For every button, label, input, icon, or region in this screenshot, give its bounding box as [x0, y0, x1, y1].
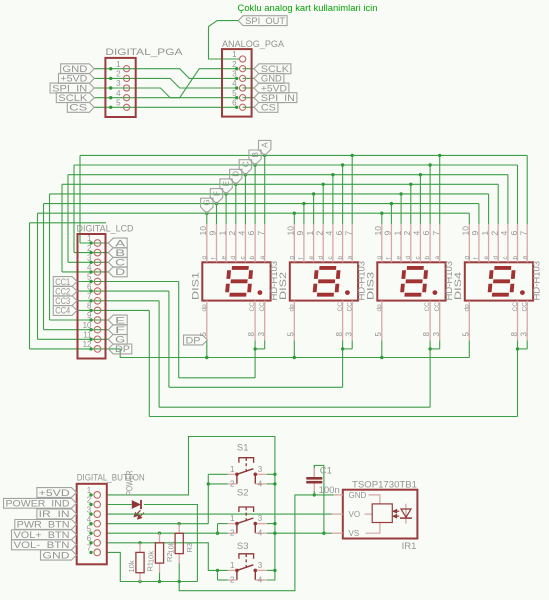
junction PWR_BTN at R3 top — [178, 522, 181, 525]
wire net +5VD (DIGITAL_PGA pin2 to ANALOG_PGA pin4) — [94, 78, 237, 88]
svg-text:+5VD: +5VD — [39, 488, 70, 498]
wire S1 left node — [208, 474, 228, 523]
svg-text:1: 1 — [480, 231, 490, 236]
svg-text:dp: dp — [201, 304, 208, 312]
svg-text:g: g — [464, 256, 471, 260]
svg-text:B: B — [115, 248, 125, 258]
svg-text:CS: CS — [69, 103, 87, 113]
svg-text:2: 2 — [230, 576, 235, 585]
svg-text:8: 8 — [247, 332, 256, 337]
svg-text:VOL-_BTN: VOL-_BTN — [14, 540, 70, 550]
net flag SCLK (DIGITAL_PGA pin4) — [56, 93, 94, 103]
svg-text:DIGITAL_BUTTON: DIGITAL_BUTTON — [77, 473, 145, 484]
net flag POWER_IND (DIGITAL_BUTTON pin2) — [4, 498, 77, 508]
svg-text:2: 2 — [402, 231, 412, 236]
net pennant label E — [220, 179, 232, 194]
junction VOL+ at R2 top — [158, 532, 161, 535]
svg-text:1: 1 — [392, 231, 402, 236]
junction net C at DIS1 (label attach) — [244, 173, 247, 176]
net pennant label C — [239, 160, 251, 175]
wire net POWER_IND (DIGITAL_BUTTON pin2 to LED anode) — [107, 504, 132, 506]
wire GND run to IR1 ground — [179, 495, 333, 591]
junction +5VD at S1 pin3 — [273, 473, 276, 476]
net flag F (DIGITAL_LCD pin10) — [108, 325, 127, 335]
junction +5VD at S2 pin3 — [273, 522, 276, 525]
svg-text:2: 2 — [232, 60, 237, 69]
svg-text:6: 6 — [232, 99, 237, 108]
IR receiver IR1 TSOP1730TB1 — [332, 480, 418, 553]
net pennant label G — [201, 198, 213, 213]
svg-text:DIS1: DIS1 — [190, 272, 200, 300]
net flag CC1 (DIGITAL_LCD pin5) — [53, 277, 77, 287]
junction net DP at DIS3 dp pin — [380, 356, 383, 359]
net flag DP (DIGITAL_LCD pin12) — [108, 344, 132, 354]
svg-text:5: 5 — [287, 332, 296, 337]
net flag CS (ANALOG_PGA pin6) — [254, 102, 278, 112]
net flag CS (DIGITAL_PGA pin5) — [67, 102, 94, 112]
net flag IR_IN (DIGITAL_BUTTON pin3) — [37, 509, 77, 519]
junction net E at DIS3 — [399, 192, 402, 195]
7-segment display DIS2 (HD-H103) — [278, 224, 368, 340]
svg-text:CC: CC — [434, 302, 441, 312]
svg-text:a: a — [521, 256, 528, 260]
junction SPI_IN at ANALOG_PGA pin5 — [235, 96, 238, 99]
svg-text:GND: GND — [62, 64, 87, 74]
svg-text:3: 3 — [432, 332, 441, 337]
wire net C (segment bus line 3) — [68, 175, 508, 263]
svg-text:E: E — [222, 181, 231, 186]
svg-text:e: e — [483, 256, 490, 260]
svg-text:a: a — [434, 256, 441, 260]
push button S2 — [228, 488, 267, 538]
svg-text:G: G — [203, 199, 212, 205]
junction GND at DIGITAL_PGA pin1 — [109, 67, 112, 70]
svg-text:4: 4 — [412, 231, 422, 236]
svg-text:1: 1 — [230, 465, 235, 474]
svg-text:g: g — [201, 256, 208, 260]
net flag C (DIGITAL_LCD pin3) — [108, 257, 127, 267]
svg-text:DIS3: DIS3 — [365, 272, 375, 300]
svg-text:3: 3 — [258, 561, 263, 570]
junction GND at C1 bottom — [313, 493, 316, 496]
resistor R3 10k — [166, 524, 194, 582]
svg-text:9: 9 — [383, 231, 393, 236]
wire +5VD branch to S2 pin3 — [267, 523, 275, 525]
wire net +5VD (DIGITAL_BUTTON pin1 to switch common rail) — [107, 437, 275, 581]
svg-text:1: 1 — [116, 60, 121, 69]
svg-text:6: 6 — [334, 231, 344, 236]
svg-text:CS: CS — [261, 103, 276, 113]
junction VOL+ at S2 left node — [216, 532, 219, 535]
wire SPI_OUT (ANALOG_PGA pin1 to label) — [209, 21, 240, 59]
junction PWR_BTN at S1 pin2 — [207, 482, 210, 485]
svg-text:g: g — [289, 256, 296, 260]
svg-text:1: 1 — [305, 231, 315, 236]
junction GND at R1 — [138, 580, 141, 583]
net flag E (DIGITAL_LCD pin9) — [108, 315, 127, 325]
svg-text:GND: GND — [261, 74, 282, 84]
svg-text:f: f — [298, 258, 305, 260]
svg-text:2: 2 — [227, 231, 237, 236]
wire net G (segment bus line 7) — [38, 213, 470, 339]
svg-text:f: f — [473, 258, 480, 260]
svg-text:d: d — [492, 256, 499, 260]
net flag GND (DIGITAL_PGA pin1) — [61, 64, 95, 74]
svg-text:3: 3 — [258, 514, 263, 523]
7-segment display DIS3 (HD-H103) — [365, 224, 455, 340]
svg-text:D: D — [115, 267, 125, 277]
svg-text:9: 9 — [470, 231, 480, 236]
svg-text:SPI_IN: SPI_IN — [261, 93, 295, 103]
net pennant label D — [230, 169, 242, 184]
resistor R2 10k — [147, 533, 175, 581]
svg-text:DIGITAL_LCD: DIGITAL_LCD — [77, 224, 134, 235]
svg-text:G: G — [115, 335, 125, 345]
svg-text:1: 1 — [230, 561, 235, 570]
svg-text:DIS2: DIS2 — [278, 272, 288, 300]
wire net VOL+_BTN (DIGITAL_BUTTON pin5 to S2 pin2) — [107, 532, 228, 534]
svg-text:DP: DP — [115, 344, 130, 354]
svg-text:E: E — [115, 315, 125, 325]
svg-text:DIS4: DIS4 — [453, 272, 463, 300]
svg-text:b: b — [249, 255, 256, 259]
junction +5VD at S1 pin4 — [273, 482, 276, 485]
svg-text:CC: CC — [249, 302, 256, 312]
wire LED cathode to GND drop — [144, 505, 198, 582]
svg-text:VOL+_BTN: VOL+_BTN — [14, 530, 70, 540]
wires DIGITAL_LCD pins 9-11 to E-G labels — [38, 320, 109, 339]
wire net CC2 (DIGITAL_LCD pin6 to DIS2 common cathodes) — [77, 291, 352, 387]
svg-text:VS: VS — [349, 529, 360, 538]
net flag +5VD (ANALOG_PGA pin4) — [254, 83, 289, 93]
junction net D at DIS2 — [322, 183, 325, 186]
svg-text:2: 2 — [314, 231, 324, 236]
7-segment display DIS1 (HD-H103) — [190, 224, 280, 340]
svg-text:f: f — [211, 258, 218, 260]
net flag PWR_BTN (DIGITAL_BUTTON pin4) — [15, 520, 77, 530]
svg-text:CC: CC — [337, 302, 344, 312]
net flag VOL-_BTN (DIGITAL_BUTTON pin6) — [12, 540, 77, 550]
net flag CC2 (DIGITAL_LCD pin6) — [53, 286, 77, 296]
connector DIGITAL_LCD — [77, 224, 134, 359]
wire S2 left node to pin1 — [218, 524, 228, 534]
svg-text:4: 4 — [324, 231, 334, 236]
junction net F at DIS3 — [390, 202, 393, 205]
svg-text:e: e — [308, 256, 315, 260]
wire net CC1 (DIGITAL_LCD pin5 to DIS1 common cathodes) — [77, 282, 265, 378]
wire S3 left node to pin2 — [218, 570, 228, 580]
svg-text:4: 4 — [237, 231, 247, 236]
junction net F at DIS1 (label attach) — [215, 202, 218, 205]
svg-text:VO: VO — [349, 510, 361, 519]
junctions at DIGITAL_BUTTON pins — [89, 493, 92, 554]
svg-text:CC: CC — [346, 302, 353, 312]
svg-text:9: 9 — [208, 231, 218, 236]
net flag DP (at DIS1 dp pin) — [184, 335, 208, 345]
svg-text:POWER_IND: POWER_IND — [6, 499, 70, 509]
svg-text:10: 10 — [198, 226, 208, 236]
svg-text:2: 2 — [489, 231, 499, 236]
junctions at DIGITAL_LCD pins — [89, 241, 92, 350]
junction net E at DIS2 — [312, 192, 315, 195]
svg-text:e: e — [395, 256, 402, 260]
capacitor C1 100n — [306, 465, 339, 495]
svg-text:3: 3 — [258, 465, 263, 474]
junction net D at DIS3 — [409, 183, 412, 186]
wire net CC4 (DIGITAL_LCD pin8 to DIS4 common cathodes) — [77, 310, 527, 416]
wire net CC3 (DIGITAL_LCD pin7 to DIS3 common cathodes) — [77, 301, 440, 407]
svg-text:7: 7 — [518, 231, 528, 236]
svg-text:4: 4 — [258, 529, 263, 538]
net pennant label F — [210, 189, 222, 204]
svg-text:R3: R3 — [185, 543, 194, 553]
wire net PWR_BTN (DIGITAL_BUTTON pin4 to S1) — [107, 523, 209, 525]
net flag GND (ANALOG_PGA pin3) — [254, 73, 284, 83]
svg-text:10: 10 — [286, 226, 296, 236]
wire C1 top jog to VS column — [314, 465, 324, 533]
svg-text:2: 2 — [116, 70, 121, 79]
net flag SCLK (ANALOG_PGA pin2) — [254, 64, 291, 74]
7-segment display DIS4 (HD-H103) — [453, 224, 543, 340]
svg-text:PWR_BTN: PWR_BTN — [17, 520, 70, 530]
svg-text:d: d — [230, 256, 237, 260]
connector DIGITAL_PGA — [105, 47, 183, 117]
svg-text:7: 7 — [431, 231, 441, 236]
svg-text:CC1: CC1 — [55, 277, 70, 287]
svg-text:SPI_OUT: SPI_OUT — [245, 16, 285, 26]
svg-text:1: 1 — [232, 50, 237, 59]
svg-text:3: 3 — [257, 332, 266, 337]
junction GND at R3 — [178, 580, 181, 583]
net flag CC3 (DIGITAL_LCD pin7) — [53, 296, 77, 306]
svg-text:5: 5 — [116, 99, 121, 108]
svg-text:b: b — [512, 256, 519, 260]
svg-text:2: 2 — [230, 529, 235, 538]
junction CS at DIGITAL_PGA pin5 — [109, 106, 112, 109]
net flag A (DIGITAL_LCD pin1) — [108, 238, 127, 248]
wire net D (segment bus line 4) — [62, 184, 498, 272]
net flag G (DIGITAL_LCD pin11) — [108, 334, 127, 344]
svg-text:S2: S2 — [237, 488, 249, 499]
svg-text:10: 10 — [373, 226, 383, 236]
svg-text:A: A — [115, 238, 126, 248]
junction SPI_IN at DIGITAL_PGA pin3 — [109, 86, 112, 89]
junction net CC2 at DIS2 cathode join — [341, 347, 344, 350]
junction GND at ANALOG_PGA pin3 — [235, 77, 238, 80]
wire net SPI_IN (DIGITAL_PGA pin3 to ANALOG_PGA pin5) — [94, 88, 237, 98]
svg-text:SCLK: SCLK — [261, 64, 290, 74]
svg-text:A: A — [261, 142, 270, 148]
svg-text:10k: 10k — [127, 560, 136, 572]
junction net F at DIS2 — [302, 202, 305, 205]
svg-text:3: 3 — [344, 332, 353, 337]
wire net DP (staircase to DIGITAL_LCD pin12) — [30, 223, 107, 349]
svg-text:4: 4 — [258, 479, 263, 488]
wire +5VD (S2 pin4 to IR1 VS) — [267, 532, 332, 534]
svg-text:5: 5 — [232, 89, 237, 98]
junction +5VD at S2 pin4 — [273, 532, 276, 535]
svg-text:dp: dp — [376, 304, 383, 312]
svg-text:1: 1 — [217, 231, 227, 236]
svg-text:8: 8 — [510, 332, 519, 337]
svg-text:IR1: IR1 — [402, 541, 417, 552]
svg-text:4: 4 — [116, 89, 121, 98]
svg-text:3: 3 — [519, 332, 528, 337]
svg-text:6: 6 — [421, 231, 431, 236]
svg-text:5: 5 — [462, 332, 471, 337]
svg-text:d: d — [317, 256, 324, 260]
junction SCLK at ANALOG_PGA pin2 — [235, 67, 238, 70]
svg-text:3: 3 — [232, 70, 237, 79]
svg-text:7: 7 — [343, 231, 353, 236]
junction net DP at DIS1 dp pin — [205, 356, 208, 359]
wire net SCLK (DIGITAL_PGA pin4 to ANALOG_PGA pin2) — [94, 69, 237, 98]
junction net A at DIS2 — [351, 154, 354, 157]
svg-text:f: f — [386, 258, 393, 260]
svg-text:CC: CC — [259, 302, 266, 312]
svg-text:5: 5 — [374, 332, 383, 337]
svg-text:3: 3 — [116, 79, 121, 88]
svg-text:4: 4 — [258, 576, 263, 585]
svg-text:S3: S3 — [237, 541, 249, 552]
junction +5VD at C1/VS column — [322, 532, 325, 535]
svg-text:b: b — [337, 256, 344, 260]
svg-text:B: B — [251, 152, 260, 157]
svg-text:F: F — [212, 191, 221, 196]
svg-text:10: 10 — [461, 226, 471, 236]
junction net D at DIS1 (label attach) — [234, 183, 237, 186]
svg-text:5: 5 — [199, 332, 208, 337]
net pennant label B — [249, 150, 261, 165]
junction net A at DIS1 (label attach) — [263, 154, 266, 157]
svg-text:CC: CC — [521, 302, 528, 312]
wire net GND (DIGITAL_PGA pin1 to ANALOG_PGA pin3) — [94, 69, 237, 79]
junction net CC3 at DIS3 cathode join — [428, 347, 431, 350]
svg-text:6: 6 — [509, 231, 519, 236]
net flag +5VD (DIGITAL_PGA pin2) — [59, 73, 95, 83]
junction net CC1 at DIS1 cathode join — [253, 347, 256, 350]
svg-text:1: 1 — [230, 514, 235, 523]
svg-text:CC: CC — [512, 302, 519, 312]
wire +5VD branch to S3 pin3 — [267, 569, 275, 571]
svg-text:8: 8 — [335, 332, 344, 337]
svg-text:GND: GND — [43, 550, 70, 560]
svg-text:d: d — [405, 256, 412, 260]
resistor R1 10k — [127, 543, 155, 583]
wire +5VD branch to S1 pin4 — [267, 483, 275, 485]
svg-text:HD-H103: HD-H103 — [531, 261, 542, 301]
net flag CC4 (DIGITAL_LCD pin8) — [53, 306, 77, 316]
svg-text:2: 2 — [230, 479, 235, 488]
wire net GND (DIGITAL_BUTTON pin7 to resistor rail) — [107, 552, 198, 581]
junction net B at DIS3 — [428, 163, 431, 166]
junction net G at DIS3 — [380, 212, 383, 215]
svg-text:F: F — [115, 325, 126, 335]
svg-text:+5VD: +5VD — [60, 74, 87, 84]
push button S1 — [228, 442, 267, 488]
junction net E at DIS1 (label attach) — [224, 192, 227, 195]
junction net DP at DIS2 dp pin — [293, 356, 296, 359]
svg-text:9: 9 — [295, 231, 305, 236]
net label SPI_OUT flag — [238, 16, 287, 26]
svg-text:dp: dp — [289, 304, 296, 312]
svg-text:S1: S1 — [237, 442, 249, 453]
junction net G at DIS1 (label attach) — [205, 212, 208, 215]
svg-text:C: C — [115, 258, 125, 268]
net flag +5VD (DIGITAL_BUTTON pin1) — [37, 488, 77, 498]
junction SCLK at DIGITAL_PGA pin4 — [109, 96, 112, 99]
wire +5VD branch to S1 pin3 — [267, 473, 275, 475]
svg-text:g: g — [376, 256, 383, 260]
svg-text:SCLK: SCLK — [58, 93, 88, 103]
svg-text:100n: 100n — [319, 485, 340, 496]
junction CS at ANALOG_PGA pin6 — [235, 106, 238, 109]
svg-text:C1: C1 — [320, 466, 332, 477]
svg-text:CC3: CC3 — [55, 296, 70, 306]
svg-text:10k: 10k — [147, 551, 156, 563]
svg-text:e: e — [220, 256, 227, 260]
connector DIGITAL_BUTTON — [77, 473, 145, 565]
net flag SPI_IN (DIGITAL_PGA pin3) — [50, 83, 94, 93]
net pennant label A — [259, 140, 271, 155]
svg-text:C: C — [241, 161, 250, 167]
svg-text:4: 4 — [232, 79, 237, 88]
junction +5VD at ANALOG_PGA pin4 — [235, 86, 238, 89]
svg-text:D: D — [232, 171, 241, 177]
junction net G at DIS2 — [293, 212, 296, 215]
wire net CS (DIGITAL_PGA pin5 to ANALOG_PGA pin6) — [94, 106, 237, 108]
wire net IR_IN (DIGITAL_BUTTON pin3 to IR1 VO) — [107, 513, 332, 515]
svg-text:CC2: CC2 — [55, 286, 70, 296]
wire net E (segment bus line 5) — [50, 194, 489, 320]
svg-text:8: 8 — [422, 332, 431, 337]
junction net CC4 at DIS4 cathode join — [516, 347, 519, 350]
svg-text:6: 6 — [246, 230, 256, 235]
junction net C at DIS2 — [331, 173, 334, 176]
connector ANALOG_PGA — [222, 39, 285, 117]
junction VOL- at R1 top — [138, 541, 141, 544]
wire net B (segment bus line 2) — [74, 165, 518, 253]
svg-text:CC: CC — [424, 302, 431, 312]
wire stubs ANALOG_PGA pins to right labels — [243, 69, 254, 108]
svg-text:GND: GND — [349, 491, 367, 500]
svg-text:IR_IN: IR_IN — [39, 509, 70, 519]
net flag GND (DIGITAL_BUTTON pin7) — [41, 550, 77, 560]
net flag SPI_IN (ANALOG_PGA pin5) — [254, 93, 297, 103]
svg-text:Çoklu analog kart kullanimlari: Çoklu analog kart kullanimlari icin — [238, 3, 378, 13]
svg-text:SPI_IN: SPI_IN — [52, 83, 87, 93]
svg-text:+5VD: +5VD — [261, 83, 287, 93]
svg-text:dp: dp — [464, 304, 471, 312]
LED POWER (power indicator) — [132, 500, 144, 519]
svg-text:b: b — [424, 256, 431, 260]
junction net A at DIS3 — [438, 154, 441, 157]
svg-text:7: 7 — [256, 231, 266, 236]
wire net A (segment bus line 1) — [80, 155, 527, 243]
svg-text:a: a — [259, 256, 266, 260]
junction GND at R2 — [158, 580, 161, 583]
net flag VOL+_BTN (DIGITAL_BUTTON pin5) — [12, 530, 77, 540]
wire net VOL-_BTN (DIGITAL_BUTTON pin6 to S3) — [107, 543, 228, 571]
junction VOL- at S3 left node — [216, 569, 219, 572]
svg-text:CC4: CC4 — [55, 306, 70, 316]
push button S3 — [228, 541, 267, 585]
junction net B at DIS2 — [341, 163, 344, 166]
wires DIGITAL_LCD pins 1-4 to A-D labels — [62, 243, 108, 272]
wire net F (segment bus line 6) — [44, 204, 479, 330]
svg-text:10k: 10k — [166, 541, 175, 553]
junction net C at DIS3 — [419, 173, 422, 176]
